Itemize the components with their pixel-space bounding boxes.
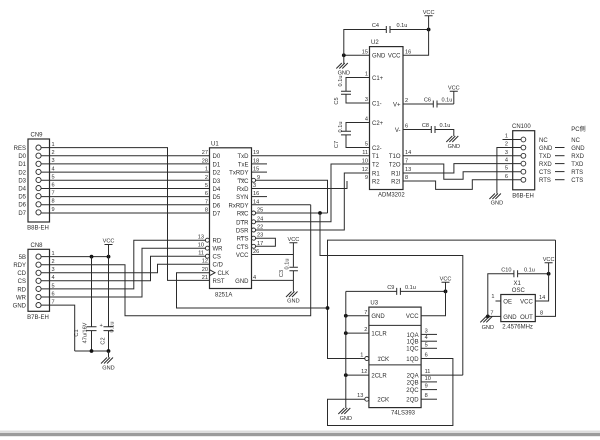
svg-text:DSR: DSR bbox=[236, 229, 249, 235]
svg-text:RD: RD bbox=[213, 239, 222, 245]
CN100 pin stubs inside wires bbox=[513, 148, 521, 180]
ground symbol U2 bbox=[336, 55, 350, 76]
U3 right pin numbers bbox=[425, 328, 431, 399]
CN100 right side labels bbox=[539, 138, 553, 184]
U1 DTR bubble bbox=[252, 220, 256, 224]
svg-text:D0: D0 bbox=[213, 154, 221, 160]
svg-text:0.1u: 0.1u bbox=[405, 285, 416, 291]
wire RxC to clock net bbox=[256, 212, 328, 214]
ground symbol X1 bbox=[480, 316, 494, 330]
svg-text:1CLR: 1CLR bbox=[371, 332, 387, 338]
wire D3 bbox=[41, 179, 209, 181]
svg-text:RxRDY: RxRDY bbox=[228, 203, 248, 209]
wire CD to U1 C/D bbox=[41, 264, 209, 273]
svg-text:VCC: VCC bbox=[440, 276, 452, 282]
svg-text:R2: R2 bbox=[372, 179, 380, 185]
wire TxD to U2 T1 bbox=[252, 155, 370, 157]
wire U3 ground vertical bbox=[345, 291, 347, 408]
U1 RxC bubble bbox=[252, 211, 256, 215]
U1 WR bubble bbox=[205, 246, 209, 250]
svg-text:SYN: SYN bbox=[236, 195, 248, 201]
svg-text:3: 3 bbox=[505, 150, 508, 156]
svg-text:OUT: OUT bbox=[520, 315, 533, 321]
wire D2 bbox=[41, 171, 209, 173]
svg-text:11: 11 bbox=[362, 150, 368, 156]
U1 RTS bubble bbox=[252, 236, 256, 240]
svg-text:1: 1 bbox=[505, 134, 508, 140]
ground symbol CN100 bbox=[489, 194, 503, 207]
svg-text:B7B-EH: B7B-EH bbox=[27, 315, 49, 321]
svg-text:C2-: C2- bbox=[372, 146, 382, 152]
svg-text:TXD: TXD bbox=[539, 154, 552, 160]
svg-text:D7: D7 bbox=[18, 211, 26, 217]
U1 right pin numbers bbox=[253, 150, 263, 281]
U1 CTS bubble bbox=[252, 244, 256, 248]
svg-text:OE: OE bbox=[503, 300, 512, 306]
wire 1QA stub bbox=[421, 333, 437, 335]
svg-text:3: 3 bbox=[425, 328, 428, 334]
U2 left pin names bbox=[372, 54, 386, 186]
svg-text:5B: 5B bbox=[19, 255, 26, 261]
svg-text:D5: D5 bbox=[213, 195, 221, 201]
svg-text:0.1u: 0.1u bbox=[338, 122, 344, 133]
capacitor C6 0.1u on V+ bbox=[403, 98, 454, 108]
U3 right pin names bbox=[406, 314, 419, 403]
svg-text:4: 4 bbox=[52, 166, 55, 172]
svg-text:B6B-EH: B6B-EH bbox=[512, 193, 534, 199]
wire raw clock OSC to U1 CLK and 1CK bbox=[328, 240, 556, 358]
svg-text:14: 14 bbox=[539, 295, 545, 301]
svg-text:10: 10 bbox=[198, 243, 204, 249]
node VCC C4 junction bbox=[427, 28, 431, 32]
svg-text:V+: V+ bbox=[393, 102, 401, 108]
svg-text:7: 7 bbox=[205, 199, 208, 205]
svg-text:VCC: VCC bbox=[423, 10, 435, 16]
svg-text:U2: U2 bbox=[371, 40, 379, 46]
wire RD to U1 RD bbox=[41, 240, 205, 289]
X1 pin names bbox=[503, 300, 517, 322]
VCC symbol at C9 bbox=[440, 276, 452, 291]
svg-text:C3: C3 bbox=[279, 270, 285, 277]
wire X1 VCC pin14 bbox=[535, 274, 548, 301]
svg-text:RDY: RDY bbox=[13, 263, 26, 269]
wire X1 OUT pin8 to raw clock bbox=[535, 240, 555, 316]
U1 right pin names bbox=[228, 154, 249, 285]
svg-text:T1O: T1O bbox=[389, 154, 401, 160]
CN8 pin circles bbox=[36, 254, 41, 308]
wire D7 bbox=[41, 212, 209, 214]
svg-text:0.1u: 0.1u bbox=[110, 322, 116, 333]
U1 CS bubble bbox=[205, 254, 209, 258]
svg-text:28: 28 bbox=[202, 158, 208, 164]
capacitor C3 0.1u bbox=[279, 259, 298, 292]
svg-text:0.1u: 0.1u bbox=[440, 123, 451, 129]
svg-text:CS: CS bbox=[213, 255, 221, 261]
svg-text:DTR: DTR bbox=[236, 220, 249, 226]
svg-text:5: 5 bbox=[365, 142, 368, 148]
VCC symbol CN8 rail bbox=[103, 239, 115, 257]
svg-text:RxC: RxC bbox=[237, 212, 249, 218]
connector CN8 bbox=[27, 243, 49, 321]
svg-text:2QD: 2QD bbox=[406, 398, 419, 404]
wire D6 bbox=[41, 204, 209, 206]
svg-text:C5: C5 bbox=[334, 97, 340, 104]
svg-text:T2O: T2O bbox=[389, 162, 401, 168]
ground symbol below C3 bbox=[286, 292, 300, 305]
wire 2CLR to ground net bbox=[346, 374, 369, 376]
op-amp U1 8251A USART body bbox=[210, 141, 252, 298]
svg-text:1: 1 bbox=[360, 353, 363, 359]
svg-text:GND: GND bbox=[503, 315, 517, 321]
svg-text:C1+: C1+ bbox=[372, 76, 384, 82]
svg-text:11: 11 bbox=[198, 251, 204, 257]
svg-text:D4: D4 bbox=[18, 187, 26, 193]
svg-text:0.1u: 0.1u bbox=[338, 76, 344, 87]
node 1CLR junction bbox=[344, 331, 348, 335]
svg-text:VCC: VCC bbox=[236, 253, 249, 259]
capacitor C1 electrolytic 47u/16V bbox=[74, 257, 103, 351]
wire U2 VCC pin16 bbox=[403, 30, 429, 56]
wire U2 GND pin15 bbox=[344, 54, 370, 56]
svg-text:PC側: PC側 bbox=[571, 125, 585, 133]
wire T1O to CN100 pin3 TXD bbox=[403, 155, 513, 157]
CN9 signal name labels bbox=[14, 146, 27, 217]
svg-text:TxD: TxD bbox=[238, 154, 250, 160]
svg-text:RTS: RTS bbox=[539, 178, 551, 184]
CN8 pin numbers 1-7 bbox=[52, 251, 55, 306]
svg-text:GND: GND bbox=[102, 366, 114, 372]
svg-text:T1: T1 bbox=[372, 154, 380, 160]
svg-text:6: 6 bbox=[205, 191, 208, 197]
CN8 signal name labels bbox=[13, 255, 27, 310]
svg-text:C/D: C/D bbox=[213, 263, 224, 269]
wire 2QA to divided clock riser bbox=[421, 374, 463, 376]
svg-text:9: 9 bbox=[52, 207, 55, 213]
wire ground rail under C1 C2 bbox=[75, 350, 109, 352]
svg-text:9: 9 bbox=[425, 384, 428, 390]
svg-text:GND: GND bbox=[371, 314, 385, 320]
svg-text:16: 16 bbox=[405, 49, 411, 55]
svg-text:D2: D2 bbox=[18, 170, 26, 176]
svg-text:5: 5 bbox=[505, 166, 508, 172]
CN9 pin circles bbox=[36, 145, 41, 215]
svg-text:VCC: VCC bbox=[388, 54, 401, 60]
svg-text:1QD: 1QD bbox=[406, 357, 419, 363]
node C9 VCC junction bbox=[444, 290, 448, 294]
wire RES from CN9 pin1 to U1 RST bbox=[41, 148, 209, 281]
PC side signal names bbox=[571, 138, 585, 184]
node 2CLR junction bbox=[344, 373, 348, 377]
node U3 gnd pin7 junction bbox=[344, 314, 348, 318]
svg-text:GND: GND bbox=[482, 325, 494, 331]
node U2 ground junction bbox=[342, 53, 346, 57]
svg-text:2CLR: 2CLR bbox=[371, 374, 387, 380]
svg-text:D3: D3 bbox=[18, 178, 26, 184]
svg-text:21: 21 bbox=[202, 275, 208, 281]
svg-text:5: 5 bbox=[425, 342, 428, 348]
node VCC/C2 junction bbox=[107, 255, 111, 259]
wire 2QC stub bbox=[421, 389, 437, 391]
wire X1 GND pin7 bbox=[488, 315, 501, 317]
svg-text:CN9: CN9 bbox=[31, 133, 44, 139]
CN9 pin numbers 1-9 bbox=[52, 142, 55, 213]
svg-text:RES: RES bbox=[14, 146, 26, 152]
U1 CLK clock triangle bbox=[210, 270, 216, 276]
svg-text:D3: D3 bbox=[213, 179, 221, 185]
U1 RD bubble bbox=[205, 238, 209, 242]
svg-text:C2+: C2+ bbox=[372, 121, 384, 127]
svg-text:D5: D5 bbox=[18, 195, 26, 201]
wire T2O to CN100 pin5 CTS bbox=[403, 164, 513, 179]
svg-text:WR: WR bbox=[213, 247, 224, 253]
page bottom border light line bbox=[0, 431, 600, 433]
svg-text:NC: NC bbox=[571, 138, 580, 144]
svg-text:4: 4 bbox=[505, 158, 508, 164]
svg-text:RD: RD bbox=[17, 287, 26, 293]
CN100 pin circles bbox=[521, 137, 526, 182]
svg-text:X1: X1 bbox=[514, 281, 522, 287]
svg-text:6: 6 bbox=[505, 174, 508, 180]
wire R2I to CN100 pin6 RTS bbox=[403, 180, 513, 190]
CN100 pin numbers bbox=[505, 134, 508, 180]
wire 2QB stub bbox=[421, 381, 437, 383]
svg-text:2CK: 2CK bbox=[377, 398, 389, 404]
svg-text:10: 10 bbox=[425, 376, 431, 382]
capacitor C8 0.1u on V- bbox=[403, 123, 454, 136]
wire TxC to clock net bbox=[256, 180, 328, 213]
svg-text:0.1u: 0.1u bbox=[397, 23, 408, 29]
U3 1CK bubble bbox=[365, 357, 369, 361]
svg-text:+: + bbox=[100, 323, 103, 329]
svg-text:7: 7 bbox=[364, 310, 367, 316]
svg-text:GND: GND bbox=[372, 54, 386, 60]
svg-text:RTS: RTS bbox=[571, 170, 583, 176]
wire divided clock from 2QA bbox=[320, 213, 463, 375]
wire R1I to CN100 pin4 RXD bbox=[403, 164, 513, 173]
svg-text:VCC: VCC bbox=[406, 314, 419, 320]
capacitor C7 0.1u bbox=[334, 122, 370, 149]
svg-text:TxC: TxC bbox=[238, 179, 250, 185]
wire U3 VCC pin14 bbox=[421, 291, 445, 315]
svg-text:ADM3202: ADM3202 bbox=[378, 193, 405, 199]
svg-text:CN100: CN100 bbox=[512, 124, 531, 130]
wire DTR to U2 T2 bbox=[256, 164, 370, 222]
svg-text:1QB: 1QB bbox=[407, 340, 419, 346]
svg-text:VCC: VCC bbox=[287, 237, 299, 243]
svg-text:D2: D2 bbox=[213, 171, 221, 177]
svg-text:3: 3 bbox=[365, 97, 368, 103]
svg-text:8: 8 bbox=[405, 175, 408, 181]
svg-text:27: 27 bbox=[202, 150, 208, 156]
svg-text:D6: D6 bbox=[213, 203, 221, 209]
U1 TxC bubble bbox=[252, 178, 256, 182]
wire D0 bbox=[41, 155, 209, 157]
svg-text:TxRDY: TxRDY bbox=[229, 171, 248, 177]
page bottom border dark line bbox=[0, 433, 600, 436]
node X1 gnd junction bbox=[486, 315, 490, 319]
node C1 ground junction bbox=[90, 349, 94, 353]
svg-text:WR: WR bbox=[16, 295, 27, 301]
svg-text:6: 6 bbox=[425, 353, 428, 359]
svg-text:12: 12 bbox=[361, 369, 367, 375]
wire RxRDY to riser bbox=[252, 204, 311, 206]
svg-text:RXD: RXD bbox=[539, 162, 552, 168]
svg-text:C4: C4 bbox=[372, 23, 379, 29]
svg-text:7: 7 bbox=[52, 191, 55, 197]
svg-text:GND: GND bbox=[539, 146, 553, 152]
wire WR to U1 WR bbox=[41, 248, 205, 297]
svg-text:13: 13 bbox=[198, 235, 204, 241]
svg-text:C1: C1 bbox=[74, 329, 80, 336]
svg-text:CD: CD bbox=[17, 271, 26, 277]
svg-text:1: 1 bbox=[365, 72, 368, 78]
node C2 ground junction bbox=[107, 349, 111, 353]
X1 OE stub pin1 bbox=[496, 300, 501, 302]
wire DSR to U2 R1 bbox=[256, 173, 370, 230]
svg-text:B8B-EH: B8B-EH bbox=[27, 226, 49, 232]
svg-text:GND: GND bbox=[340, 416, 352, 422]
svg-text:R1: R1 bbox=[372, 171, 380, 177]
svg-text:GND: GND bbox=[287, 299, 299, 305]
svg-text:1QA: 1QA bbox=[407, 333, 419, 339]
svg-text:C1-: C1- bbox=[372, 101, 382, 107]
wire CS to U1 CS bbox=[41, 256, 205, 281]
U3 left pin names bbox=[371, 314, 389, 403]
svg-text:TXD: TXD bbox=[571, 162, 584, 168]
svg-text:VCC: VCC bbox=[520, 300, 533, 306]
svg-text:C8: C8 bbox=[422, 123, 429, 129]
svg-text:GND: GND bbox=[13, 304, 27, 310]
svg-text:D6: D6 bbox=[18, 203, 26, 209]
svg-text:8251A: 8251A bbox=[215, 293, 232, 299]
wire SYN stub bbox=[252, 196, 268, 198]
svg-text:0.1u: 0.1u bbox=[442, 98, 453, 104]
VCC symbol at C6 bbox=[448, 85, 460, 104]
wire clock branch to U1 CLK bbox=[177, 273, 328, 308]
svg-text:CN8: CN8 bbox=[31, 243, 44, 249]
svg-text:2: 2 bbox=[205, 175, 208, 181]
svg-text:GND: GND bbox=[235, 279, 249, 285]
svg-text:1: 1 bbox=[491, 294, 494, 300]
wire D1 bbox=[41, 163, 209, 165]
U2 right pin numbers bbox=[405, 49, 411, 181]
svg-text:2: 2 bbox=[505, 142, 508, 148]
svg-text:D4: D4 bbox=[213, 187, 221, 193]
svg-text:11: 11 bbox=[425, 369, 431, 375]
wire 1CLR to ground net bbox=[346, 332, 369, 334]
svg-text:6: 6 bbox=[52, 183, 55, 189]
wire RxD to U2 R2 bbox=[252, 181, 348, 189]
svg-text:GND: GND bbox=[571, 146, 585, 152]
wire 1QD to 2CK cascade loop bbox=[328, 359, 453, 426]
svg-text:8: 8 bbox=[205, 208, 208, 214]
node C10 VCC junction bbox=[547, 272, 551, 276]
svg-text:13: 13 bbox=[405, 167, 411, 173]
wire TxE stub bbox=[252, 163, 268, 165]
svg-text:8: 8 bbox=[425, 393, 428, 399]
svg-text:8: 8 bbox=[540, 310, 543, 316]
svg-text:RxD: RxD bbox=[237, 187, 249, 193]
U2 right pin names bbox=[388, 54, 401, 186]
svg-text:2: 2 bbox=[364, 327, 367, 333]
svg-text:D1: D1 bbox=[18, 162, 26, 168]
wire 5V rail from CN8 pin1 bbox=[41, 256, 108, 258]
svg-text:2QC: 2QC bbox=[406, 388, 419, 394]
wire D5 bbox=[41, 196, 209, 198]
svg-text:47u/16V: 47u/16V bbox=[83, 322, 89, 343]
svg-text:R2I: R2I bbox=[391, 179, 401, 185]
svg-text:D0: D0 bbox=[18, 154, 26, 160]
wire 1QC stub bbox=[421, 347, 437, 349]
VCC symbol above C3 bbox=[287, 237, 299, 267]
capacitor C10 0.1u bbox=[488, 267, 549, 316]
svg-text:9: 9 bbox=[365, 175, 368, 181]
wire GND from CN8 pin7 bbox=[41, 305, 75, 351]
U2 left pin numbers bbox=[362, 49, 368, 181]
wire CN100 pin2 GND bbox=[497, 148, 513, 194]
svg-text:VCC: VCC bbox=[448, 85, 460, 91]
node C1 junction bbox=[90, 255, 94, 259]
wire RTS tied to CTS bbox=[256, 238, 276, 246]
capacitor C2 0.1u bbox=[101, 257, 116, 351]
svg-text:OSC: OSC bbox=[512, 288, 526, 294]
node clock branch junction bbox=[326, 306, 330, 310]
U3 left pin numbers bbox=[357, 310, 367, 399]
svg-text:NC: NC bbox=[539, 138, 548, 144]
svg-text:2QA: 2QA bbox=[407, 374, 419, 380]
svg-text:U1: U1 bbox=[211, 141, 219, 147]
wire U1 VCC pin26 bbox=[252, 254, 294, 256]
svg-text:C6: C6 bbox=[424, 98, 431, 104]
VCC symbol above C4 bbox=[423, 10, 435, 30]
svg-text:VCC: VCC bbox=[103, 239, 115, 245]
U1 DSR bubble bbox=[252, 228, 256, 232]
svg-text:2: 2 bbox=[405, 98, 408, 104]
ground symbol below C2 bbox=[101, 351, 115, 372]
capacitor C4 0.1u bbox=[344, 23, 429, 55]
ground symbol U3 bbox=[338, 408, 352, 422]
svg-text:12: 12 bbox=[202, 259, 208, 265]
counter U3 74LS393 body bbox=[369, 301, 421, 417]
wire TxRDY stub bbox=[252, 171, 268, 173]
wire U1 GND pin4 bbox=[252, 279, 294, 281]
svg-text:C10: C10 bbox=[501, 267, 511, 273]
wire U3 GND pin7 bbox=[346, 315, 369, 317]
svg-text:4: 4 bbox=[365, 117, 368, 123]
svg-text:C2: C2 bbox=[101, 337, 107, 344]
svg-text:TxE: TxE bbox=[238, 162, 249, 168]
wire 2QD stub bbox=[421, 398, 437, 400]
wire RDY to U1 RxRDY (return line) bbox=[41, 205, 311, 316]
connector CN9 bbox=[27, 133, 49, 232]
ground symbol at C8 bbox=[446, 136, 460, 150]
svg-text:5: 5 bbox=[205, 183, 208, 189]
capacitor C5 0.1u bbox=[334, 76, 370, 105]
svg-text:CTS: CTS bbox=[237, 245, 249, 251]
svg-text:8: 8 bbox=[52, 199, 55, 205]
wire 1QB stub bbox=[421, 340, 437, 342]
svg-text:T2: T2 bbox=[372, 162, 380, 168]
svg-text:D1: D1 bbox=[213, 162, 221, 168]
svg-text:0.1u: 0.1u bbox=[285, 259, 291, 270]
svg-text:13: 13 bbox=[357, 393, 363, 399]
svg-text:15: 15 bbox=[362, 49, 368, 55]
VCC symbol at C10 bbox=[543, 257, 555, 274]
svg-text:1CK: 1CK bbox=[377, 357, 389, 363]
svg-text:R1I: R1I bbox=[391, 171, 401, 177]
svg-text:12: 12 bbox=[362, 167, 368, 173]
svg-text:C9: C9 bbox=[387, 285, 394, 291]
